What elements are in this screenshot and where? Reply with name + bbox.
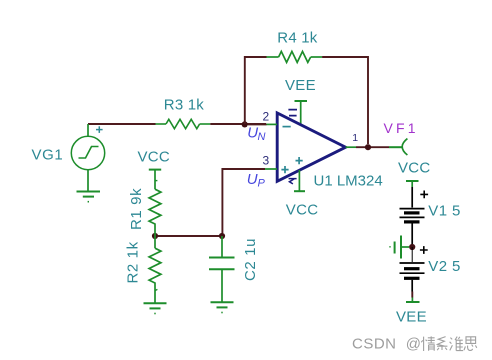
resistor R1: [149, 170, 161, 236]
svg-text:VCC: VCC: [138, 149, 171, 166]
pin 3 stub: [265, 168, 278, 170]
power VCC bar above V1: [406, 181, 419, 187]
voltage generator VG1: [71, 124, 104, 191]
pin 11 mark (rotated): [288, 110, 297, 116]
ground below C2: [211, 302, 234, 312]
power VCC bar below op-amp: [294, 190, 305, 192]
wire op-amp pin 3 to divider: [222, 169, 265, 233]
wire V2 to VEE bar: [411, 292, 413, 298]
battery V2: [400, 246, 428, 291]
output pin 1 stub: [346, 146, 356, 148]
junction node UN: [242, 121, 248, 127]
pin 4 mark (rotated): [289, 179, 297, 184]
power VEE bar above op-amp: [295, 101, 308, 125]
svg-text:V2 5: V2 5: [428, 258, 460, 275]
resistor R2: [149, 236, 161, 303]
battery V1: [400, 187, 429, 247]
watermark chinese glyph qing: [421, 336, 435, 351]
wire feedback loop right/down: [322, 57, 368, 144]
plus mark power pin: [296, 157, 303, 164]
svg-text:VCC: VCC: [398, 159, 431, 176]
svg-text:R2 1k: R2 1k: [124, 241, 141, 283]
watermark chinese glyph xi: [437, 337, 447, 351]
ground below VG1: [77, 192, 101, 202]
wire divider junction: [158, 235, 219, 237]
ground below R2: [144, 303, 167, 313]
svg-text:R3 1k: R3 1k: [164, 97, 204, 114]
resistor R3: [156, 119, 211, 128]
wire R3 to node UN: [210, 123, 266, 125]
pin 2 stub: [267, 123, 278, 125]
svg-text:R1 9k: R1 9k: [128, 188, 145, 230]
svg-text:P: P: [258, 178, 266, 190]
svg-text:@: @: [406, 335, 421, 352]
probe VF1: [389, 139, 407, 155]
svg-text:VCC: VCC: [286, 202, 319, 219]
svg-text:N: N: [258, 131, 266, 143]
svg-text:R4 1k: R4 1k: [277, 30, 317, 47]
wire output to probe: [356, 146, 389, 148]
power VCC bar above R1: [149, 169, 161, 171]
minus mark input pin 2: [283, 126, 291, 128]
svg-text:U1 LM324: U1 LM324: [314, 173, 383, 190]
svg-text:1: 1: [352, 132, 358, 144]
watermark chinese glyph si: [464, 337, 477, 351]
junction node UP bottom: [219, 233, 225, 239]
bottom power stub VCC: [298, 170, 300, 191]
junction R1 R2: [152, 233, 158, 239]
watermark chinese glyph huai: [450, 337, 464, 351]
ground at battery midpoint (rotated): [389, 236, 409, 259]
svg-text:VF1: VF1: [384, 120, 419, 136]
svg-text:2: 2: [263, 110, 270, 124]
svg-text:U: U: [247, 171, 258, 188]
plus mark at VG1 terminal: [96, 126, 103, 133]
junction battery midpoint: [409, 244, 415, 250]
svg-text:VG1: VG1: [32, 147, 64, 164]
svg-text:CSDN: CSDN: [352, 335, 397, 352]
plus mark input pin 3: [281, 166, 288, 173]
op-amp U1 triangle: [263, 110, 359, 192]
wire to op-amp pin 2: [248, 123, 267, 125]
svg-text:VEE: VEE: [285, 77, 316, 94]
wire feedback loop left/top: [245, 57, 267, 124]
svg-text:V1 5: V1 5: [428, 202, 460, 219]
resistor R4: [267, 51, 323, 62]
wire VG1 to R3: [88, 123, 156, 125]
capacitor C2: [209, 236, 235, 302]
svg-text:VEE: VEE: [396, 309, 427, 326]
svg-text:C2 1u: C2 1u: [242, 238, 259, 281]
junction output node: [365, 144, 371, 150]
svg-text:3: 3: [263, 154, 270, 168]
power VEE bar bottom: [406, 298, 420, 303]
